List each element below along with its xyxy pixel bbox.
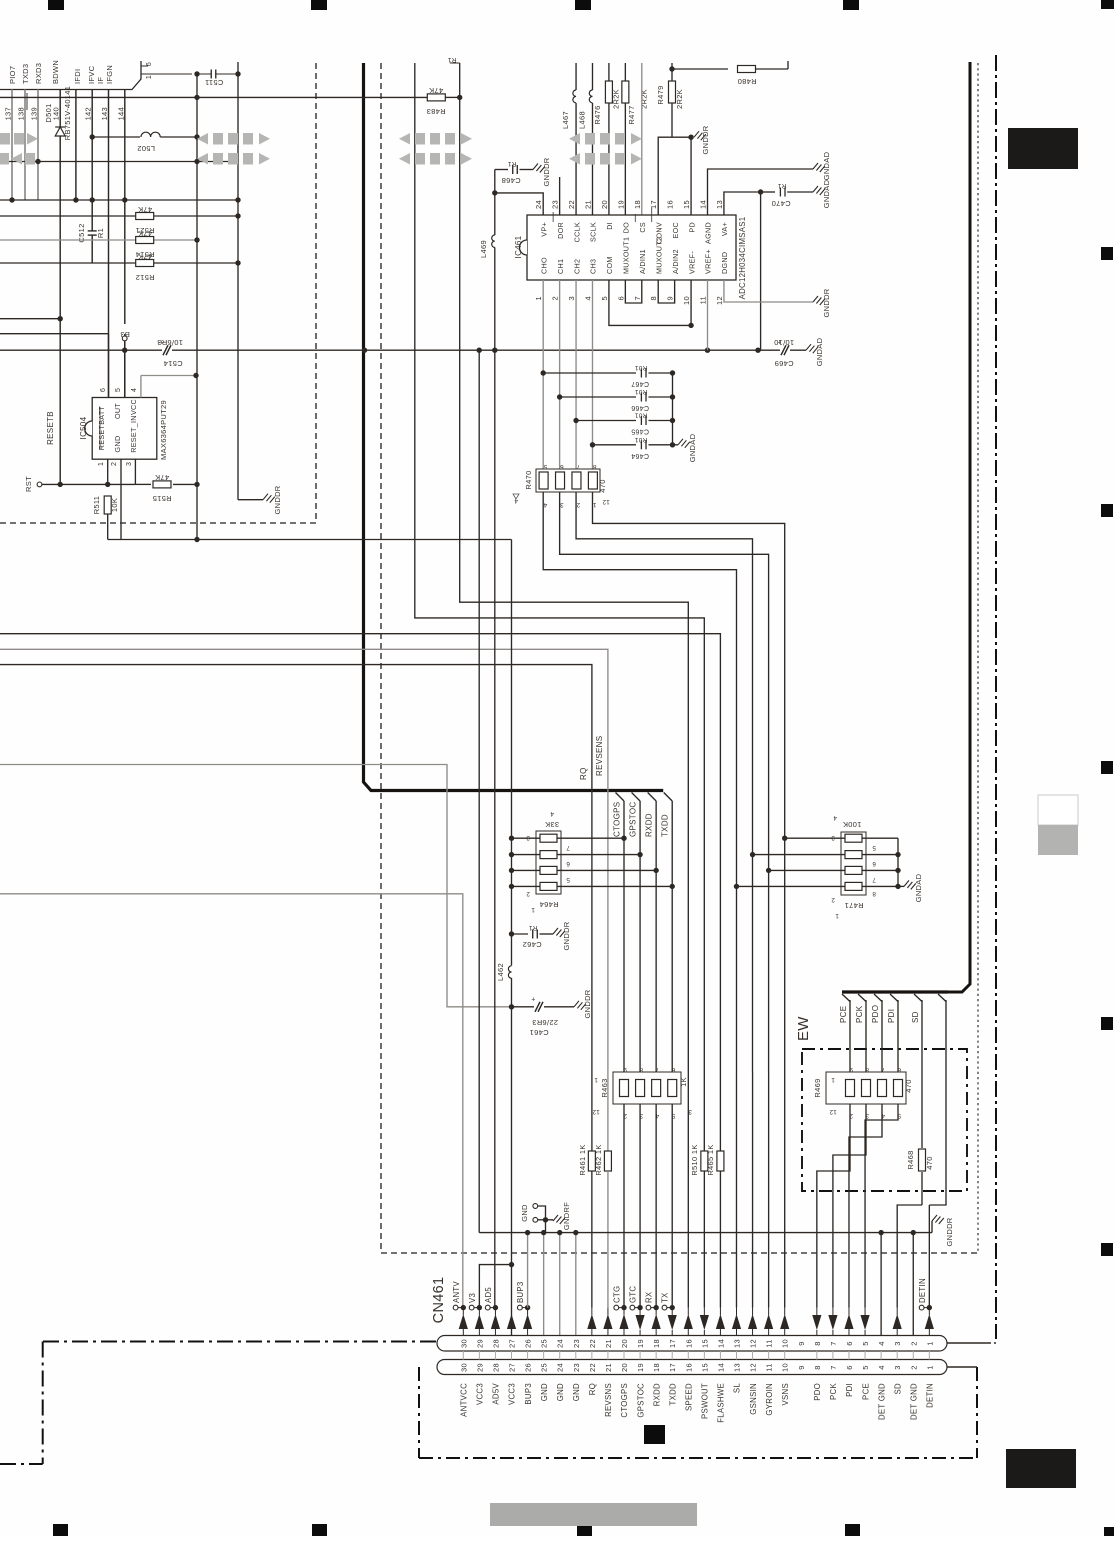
svg-text:21: 21	[583, 200, 592, 209]
svg-text:47K: 47K	[138, 229, 152, 238]
wire PCK jog to pin7	[833, 1104, 866, 1308]
wires pins into oval	[462, 1308, 464, 1315]
svg-text:REVSENS: REVSENS	[595, 736, 604, 776]
junction y200 x75.9	[73, 197, 78, 202]
junction R464 right 4	[670, 884, 675, 889]
svg-text:VP+: VP+	[539, 222, 548, 237]
arrow up pin 14	[716, 1314, 725, 1329]
R464 element 2 wire	[512, 854, 541, 856]
wire pin4 DET GND	[880, 1233, 882, 1335]
R463 element 3 wire to connector	[655, 1104, 657, 1308]
wire V3 jog to pin29	[479, 1265, 511, 1308]
svg-text:7: 7	[872, 876, 876, 883]
ground GNDDR C462	[553, 928, 565, 937]
junction C466 left	[557, 394, 562, 399]
terminal stubs above R483 junction	[450, 62, 460, 64]
connector CN461 oval row 2	[437, 1360, 947, 1375]
wire DETIN to connector	[928, 1205, 930, 1308]
svg-text:V3: V3	[468, 1293, 477, 1303]
capacitor C468	[495, 169, 508, 171]
junction y318 on pin140 wire	[58, 316, 63, 321]
svg-text:DOR: DOR	[556, 222, 565, 239]
junction R514 row x197	[194, 237, 199, 242]
svg-text:10K: 10K	[110, 498, 119, 512]
bus2 horizontal thick y992	[842, 990, 948, 993]
svg-text:6: 6	[671, 1066, 675, 1073]
svg-text:7: 7	[655, 1066, 659, 1073]
svg-text:GND: GND	[556, 1383, 565, 1401]
wire stub oval2 right corner	[947, 1366, 977, 1368]
terminal ANTV above pin 30	[453, 1305, 458, 1310]
wire R465 to connector	[719, 1171, 721, 1308]
junction V3 rail jog	[509, 1262, 514, 1267]
junction C467 left	[541, 370, 546, 375]
pin 140 BDWN wire	[59, 90, 61, 485]
junction RST row R511	[105, 482, 110, 487]
capacitor C511	[210, 70, 212, 79]
svg-text:8: 8	[813, 1365, 822, 1369]
svg-text:SL: SL	[733, 1383, 742, 1394]
rail x197 vertical	[196, 74, 198, 540]
svg-text:MAX6364PUT29: MAX6364PUT29	[159, 400, 168, 460]
svg-text:VREF+: VREF+	[704, 249, 713, 274]
svg-text:ADC12H034CIMSAS1: ADC12H034CIMSAS1	[738, 217, 747, 300]
resistor network R464 33K	[536, 831, 561, 894]
wire R470 r3 to GSNSIN	[576, 492, 752, 1072]
IC461 pins 6-7 MUXOUT1 link	[625, 280, 641, 303]
svg-text:ANTVCC: ANTVCC	[460, 1383, 469, 1417]
registration mark bottom 2	[312, 1524, 327, 1536]
svg-text:VREF-: VREF-	[687, 251, 696, 274]
svg-text:6: 6	[845, 1341, 854, 1345]
svg-text:5: 5	[861, 1365, 870, 1369]
IC504 pin 5 wire from B3 rail	[124, 350, 126, 397]
svg-text:DET GND: DET GND	[877, 1383, 886, 1420]
R463 element 4 wire to connector	[671, 1104, 673, 1308]
arrow down pin 7	[828, 1315, 837, 1330]
CN461 pin 11 tick between rows	[768, 1351, 770, 1360]
capacitor C514 electrolytic	[162, 345, 172, 355]
bus2 fanout slants to PCE PCK PDO PDI SD DETIN	[842, 994, 850, 1002]
svg-text:139: 139	[30, 107, 39, 120]
svg-text:CTG: CTG	[613, 1286, 622, 1303]
svg-text:PCK: PCK	[855, 1005, 864, 1023]
arrow up pin 29	[475, 1314, 484, 1329]
registration mark bottom right corner	[1104, 1527, 1114, 1536]
svg-text:GTC: GTC	[629, 1286, 638, 1303]
svg-text:BUP3: BUP3	[524, 1383, 533, 1405]
svg-text:1: 1	[594, 1076, 598, 1083]
color swatch white	[1038, 795, 1078, 825]
wire pin stub to C511	[148, 73, 192, 75]
svg-text:24: 24	[556, 1363, 565, 1372]
terminal RST	[37, 482, 42, 487]
svg-text:C465: C465	[631, 428, 649, 435]
terminal TX above pin 17	[662, 1305, 667, 1310]
wire PSWOUT x415 from top	[415, 63, 705, 1151]
svg-text:27: 27	[508, 1363, 517, 1372]
gray highlight arrows cluster 4	[569, 133, 642, 165]
ground GNDAD capcluster	[678, 439, 690, 448]
arrow up pin 20	[619, 1314, 628, 1329]
junction R471 left 4	[734, 884, 739, 889]
svg-text:DGND: DGND	[720, 252, 729, 274]
svg-text:ANTV: ANTV	[452, 1281, 461, 1303]
terminal B3	[122, 336, 127, 341]
svg-text:14: 14	[716, 1363, 725, 1372]
junction R464 left 4	[509, 884, 514, 889]
registration mark top 4	[843, 0, 859, 10]
svg-text:R462 1K: R462 1K	[594, 1144, 603, 1175]
svg-text:2: 2	[909, 1341, 918, 1345]
capacitor C470	[761, 191, 775, 193]
svg-text:12: 12	[592, 1108, 600, 1115]
svg-text:9: 9	[797, 1365, 806, 1369]
junction R471 left 3	[766, 868, 771, 873]
svg-text:R464: R464	[539, 900, 558, 909]
CN461 pin 13 tick between rows	[735, 1351, 737, 1360]
resistor R514 47K row y240	[0, 239, 197, 241]
svg-text:C462: C462	[522, 940, 541, 949]
svg-text:SCLK: SCLK	[589, 222, 598, 242]
svg-text:6: 6	[897, 1066, 901, 1073]
ground GNDDR near IC504	[263, 494, 275, 503]
svg-text:AGND: AGND	[704, 222, 713, 244]
svg-text:25: 25	[540, 1363, 549, 1372]
junction pin2 GND	[911, 1230, 916, 1235]
wire pin4 to x197 rail y380	[141, 375, 196, 377]
IC504 pin 6 wire	[108, 334, 110, 398]
svg-text:FLASHWE: FLASHWE	[717, 1383, 726, 1423]
arrow up pin 10	[780, 1314, 789, 1329]
svg-text:DO: DO	[622, 222, 631, 233]
svg-text:10: 10	[781, 1339, 790, 1348]
junction C511 right on x238 rail	[235, 71, 240, 76]
junction y539 x197	[194, 537, 199, 542]
svg-text:1: 1	[534, 296, 543, 300]
svg-text:VA+: VA+	[720, 222, 729, 236]
CN461 pin 18 tick between rows	[655, 1351, 657, 1360]
junction on x197 rail at C511 wire	[194, 71, 199, 76]
rail x238 vertical	[237, 62, 239, 500]
junction pin25 GND	[541, 1230, 546, 1235]
svg-text:R512: R512	[135, 273, 154, 282]
gray highlight arrows cluster 3	[399, 133, 472, 165]
svg-text:C470: C470	[771, 199, 790, 208]
svg-text:7: 7	[576, 463, 580, 470]
inductor L502 on wire y137	[92, 136, 140, 138]
svg-text:OUT: OUT	[113, 403, 122, 419]
capacitor C512	[88, 231, 97, 236]
svg-text:7: 7	[633, 296, 642, 300]
resistor R515 47K	[135, 483, 151, 485]
svg-text:6: 6	[872, 860, 876, 867]
svg-text:GND: GND	[520, 1204, 529, 1222]
junction R521 row x238	[235, 213, 240, 218]
svg-text:DETIN: DETIN	[926, 1383, 935, 1408]
pin 143 IF wire	[108, 90, 110, 398]
wire pin2 DET GND	[912, 1233, 914, 1335]
resistor network R471 100K	[841, 832, 866, 895]
CN461 pin 23 tick between rows	[575, 1351, 577, 1360]
wire x238 to GNDDR	[238, 499, 263, 501]
svg-text:1K: 1K	[679, 1077, 688, 1087]
svg-text:470: 470	[925, 1156, 934, 1169]
IC edge border top-left	[0, 61, 141, 90]
wire y894 from left edge to pin30 ANTVCC	[0, 894, 463, 1308]
registration mark top 3	[575, 0, 591, 10]
terminal CTG above pin 20	[614, 1305, 619, 1310]
svg-text:L502: L502	[137, 144, 155, 153]
pin 139 RXD3 wire	[37, 90, 39, 201]
resistor R521 47K row y216	[0, 215, 238, 217]
svg-text:23: 23	[572, 1363, 581, 1372]
svg-text:COM: COM	[605, 256, 614, 274]
svg-text:20: 20	[620, 1363, 629, 1372]
svg-text:GNDDR: GNDDR	[701, 125, 710, 154]
terminal AD5 above pin 28	[485, 1305, 490, 1310]
svg-text:19: 19	[636, 1339, 645, 1348]
svg-text:PCE: PCE	[861, 1383, 870, 1400]
wire SD jog to pin3	[897, 1205, 922, 1308]
svg-text:A/DIN1: A/DIN1	[638, 249, 647, 274]
CN461 pin 24 tick between rows	[559, 1351, 561, 1360]
arrow down pin 15	[700, 1315, 709, 1330]
IC pin stub 1	[141, 73, 148, 75]
wire GND x479 from rail y350	[478, 350, 480, 1232]
svg-text:R470: R470	[524, 470, 533, 489]
svg-text:2: 2	[909, 1365, 918, 1369]
CN461 pin 28 tick between rows	[494, 1351, 496, 1360]
svg-text:GNDDR: GNDDR	[945, 1217, 954, 1246]
svg-text:21: 21	[604, 1363, 613, 1372]
junction y200 x92.2	[90, 197, 95, 202]
svg-text:PDO: PDO	[813, 1383, 822, 1401]
junction R471 left 2	[750, 852, 755, 857]
svg-text:13: 13	[732, 1363, 741, 1372]
svg-text:AD5: AD5	[484, 1287, 493, 1303]
svg-text:137: 137	[4, 107, 13, 120]
terminal BUP3 above pin 26	[517, 1305, 522, 1310]
dashed border main block left x381	[380, 63, 382, 1253]
wire y334 branch to left edge	[0, 333, 109, 335]
svg-text:PDI: PDI	[887, 1009, 896, 1023]
svg-text:VCC3: VCC3	[476, 1383, 485, 1405]
dashed border main block bottom y1253	[381, 1252, 978, 1254]
svg-text:R461 1K: R461 1K	[578, 1144, 587, 1175]
svg-text:TXDD: TXDD	[661, 814, 670, 837]
wire R511 to y539	[107, 514, 109, 540]
terminal RX above pin 18	[646, 1305, 651, 1310]
svg-text:10/10: 10/10	[774, 338, 794, 347]
arrow up pin 16	[684, 1314, 693, 1329]
svg-text:BDWN: BDWN	[51, 60, 60, 84]
svg-text:2: 2	[526, 890, 530, 897]
svg-text:143: 143	[100, 107, 109, 120]
svg-text:14: 14	[699, 200, 708, 209]
wire pin26 BUP3 from ground rail	[527, 1233, 529, 1308]
junction R471 right rail	[895, 884, 900, 889]
wire R479 to R480	[672, 68, 728, 70]
svg-text:C467: C467	[631, 380, 649, 387]
svg-text:IFVC: IFVC	[87, 65, 96, 84]
svg-text:5: 5	[600, 296, 609, 300]
junction rail x705 pin11	[705, 348, 710, 353]
svg-text:9: 9	[849, 1066, 853, 1073]
fiducial black square in connector box	[644, 1425, 665, 1444]
svg-text:142: 142	[84, 107, 93, 120]
IC461 pin23 stub	[559, 177, 561, 215]
wire pin23 GND	[575, 1233, 577, 1335]
ground GNDDR DGND	[813, 296, 825, 305]
pin 138 TXD3 wire	[24, 90, 26, 201]
svg-text:7: 7	[829, 1365, 838, 1369]
svg-text:R463: R463	[600, 1078, 609, 1097]
resistor R476 2R2K pin20 wire	[608, 63, 610, 215]
terminal DETIN above pin 1	[919, 1305, 924, 1310]
svg-text:GNDDR: GNDDR	[273, 485, 282, 514]
terminal GND upper	[533, 1204, 538, 1209]
svg-text:IC504: IC504	[79, 416, 88, 439]
junction x197 y380	[193, 373, 198, 378]
svg-text:R1: R1	[777, 182, 786, 189]
wire x760 down to rail	[760, 192, 762, 350]
junction R515 x197	[194, 482, 199, 487]
svg-text:GNDAD: GNDAD	[688, 433, 697, 462]
junction x460 y97	[457, 95, 462, 100]
CN461 pin 7 tick between rows	[832, 1351, 834, 1360]
svg-text:18: 18	[652, 1363, 661, 1372]
CN461 pin 2 tick between rows	[912, 1351, 914, 1360]
svg-text:23: 23	[572, 1339, 581, 1348]
svg-text:R01: R01	[635, 364, 648, 371]
svg-text:22: 22	[567, 200, 576, 209]
wire VP+ node to IC461 pin24	[495, 193, 543, 215]
wire pin18 CS from top	[641, 63, 643, 215]
svg-text:TXD3: TXD3	[21, 64, 30, 84]
wire y649 REVSNS from left edge	[0, 649, 608, 1151]
svg-text:BUP3: BUP3	[516, 1281, 525, 1303]
gray highlight arrows cluster left edge	[0, 133, 38, 165]
dash-dot border bottom-left vertical x43	[42, 1342, 44, 1465]
svg-text:26: 26	[524, 1363, 533, 1372]
wire y200 from left edge	[0, 199, 238, 201]
junction y200 x12	[9, 197, 14, 202]
svg-text:17: 17	[649, 200, 658, 209]
svg-text:2: 2	[623, 1112, 627, 1119]
junction C462 on rail	[509, 931, 514, 936]
resistor R465 1K on FLASHWE	[717, 1151, 724, 1171]
arrow up pin 3	[893, 1314, 902, 1329]
svg-text:RESETB: RESETB	[46, 411, 55, 445]
R470 pin wires staircase to right	[543, 492, 736, 1072]
svg-text:24: 24	[534, 200, 543, 209]
svg-text:L468: L468	[577, 111, 586, 129]
svg-text:PCK: PCK	[829, 1383, 838, 1400]
bus line 1 thick vertical x363	[364, 63, 614, 791]
IC461 pin5 pin10 COM link	[609, 280, 691, 325]
svg-text:8: 8	[813, 1341, 822, 1345]
footer gray bar	[490, 1503, 697, 1526]
R471 element 3 wire	[769, 869, 845, 871]
label 138 overline tick	[26, 93, 28, 110]
dash-dot connector box right x977	[976, 1367, 978, 1458]
dash-dot connector box left x419	[418, 1367, 420, 1458]
wire DETIN from bus2	[929, 1000, 946, 1205]
ground GNDAD AGND	[813, 163, 825, 172]
svg-text:L467: L467	[561, 111, 570, 129]
svg-text:5: 5	[543, 463, 547, 470]
junction y161 x197	[194, 159, 199, 164]
svg-text:7: 7	[881, 1066, 885, 1073]
svg-text:3: 3	[893, 1365, 902, 1369]
junction R464 left 3	[509, 868, 514, 873]
bus line 2 thick vertical x970	[946, 62, 970, 992]
arrow down pin 17	[668, 1315, 677, 1330]
svg-text:RESETBATT: RESETBATT	[97, 405, 106, 450]
svg-text:R1: R1	[507, 160, 516, 167]
wire bus2 into R469 element 4	[897, 1000, 899, 1072]
pin 141 IFDI wire	[75, 90, 77, 201]
svg-text:12: 12	[602, 498, 610, 505]
svg-text:1: 1	[925, 1365, 934, 1369]
svg-text:6: 6	[560, 463, 564, 470]
junction C464 right	[670, 442, 675, 447]
svg-text:10: 10	[781, 1363, 790, 1372]
svg-text:19: 19	[636, 1363, 645, 1372]
svg-text:GNDAD: GNDAD	[822, 151, 831, 180]
arrow up pin 22	[587, 1314, 596, 1329]
junction R464 right 1	[621, 836, 626, 841]
svg-text:RX: RX	[645, 1291, 654, 1303]
svg-text:GND: GND	[113, 436, 122, 453]
wire y539 IC504 to V3 rail corner	[108, 539, 512, 541]
junction y200 x238	[235, 197, 240, 202]
black label block bottom right	[1006, 1449, 1076, 1488]
svg-text:R1: R1	[528, 924, 537, 931]
R471 element 1 wire	[785, 837, 845, 839]
svg-text:6: 6	[845, 1365, 854, 1369]
wire PDI jog to pin6	[849, 1104, 882, 1308]
IC461 pin12 DGND wire	[724, 280, 813, 302]
IC pin stub 6	[141, 65, 148, 67]
svg-text:17: 17	[668, 1339, 677, 1348]
svg-text:R465 1K: R465 1K	[706, 1144, 715, 1175]
svg-text:3: 3	[567, 296, 576, 300]
terminal GTC above pin 19	[630, 1305, 635, 1310]
ground GNDAD C470	[813, 186, 825, 195]
arrow down pin 19	[635, 1315, 644, 1330]
CN461 pin 27 tick between rows	[511, 1351, 513, 1360]
svg-text:2: 2	[831, 896, 835, 903]
svg-text:22: 22	[588, 1339, 597, 1348]
svg-text:144: 144	[116, 107, 125, 120]
svg-text:4: 4	[583, 296, 592, 300]
dash-dot section border x996	[995, 55, 997, 1339]
svg-text:9: 9	[623, 1066, 627, 1073]
svg-text:138: 138	[17, 107, 26, 120]
CN461 pin 14 tick between rows	[719, 1351, 721, 1360]
svg-text:GPSTOC: GPSTOC	[629, 802, 638, 837]
svg-text:VCC: VCC	[129, 399, 138, 415]
IC461 pin2 CH1 wire	[559, 280, 561, 469]
svg-text:R468: R468	[906, 1150, 915, 1169]
resistor R480	[738, 66, 756, 73]
junction rail x495 L469	[492, 348, 497, 353]
resistor R468 470 on SD	[921, 1000, 923, 1148]
inductor L467 pin22 wire	[575, 63, 577, 90]
terminal V3 above pin 29	[469, 1305, 474, 1310]
